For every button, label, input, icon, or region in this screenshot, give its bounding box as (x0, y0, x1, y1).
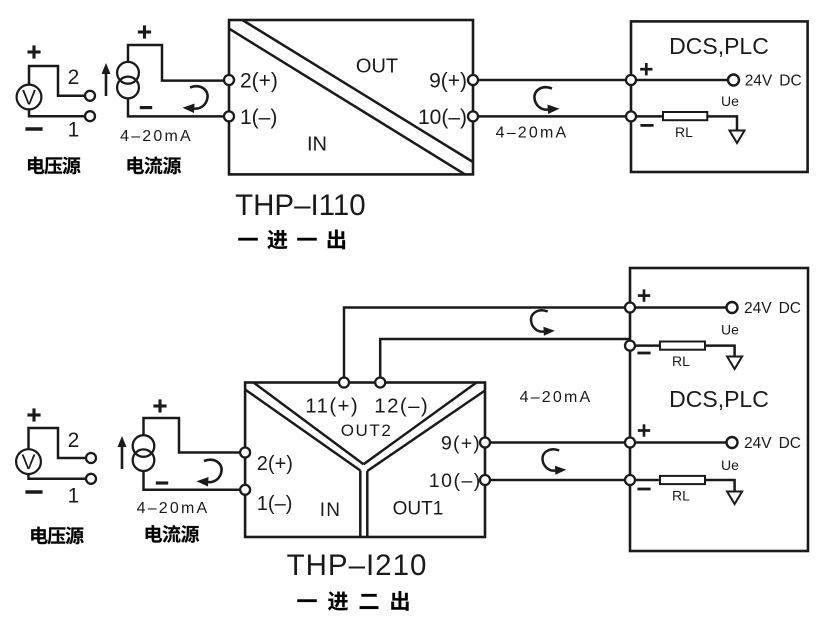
svg-text:Ue: Ue (721, 93, 739, 109)
node +a DCS2 (625, 303, 635, 313)
wire RL b to ground (705, 480, 735, 492)
node − DCS1 (626, 111, 636, 121)
terminal 24V DC (728, 75, 739, 86)
resistor RL load 1 (663, 112, 707, 120)
wire RL to ground 1 (707, 116, 737, 130)
label − DCS1 (640, 124, 653, 126)
isolator module U2 THP-I210 body (245, 383, 485, 538)
node −a DCS2 (625, 341, 635, 351)
svg-text:OUT2: OUT2 (341, 421, 393, 440)
svg-text:12(–): 12(–) (374, 395, 429, 418)
current loop arrow output 3 (542, 449, 566, 474)
svg-text:2(+): 2(+) (240, 70, 278, 93)
svg-text:IN: IN (320, 500, 342, 521)
wire V1 bottom to terminal 1 (29, 109, 85, 116)
resistor RL load b (660, 476, 705, 484)
voltage source V1 polarity − (25, 128, 42, 130)
wire 9(+) to DCS node + (478, 79, 626, 82)
wire V2 bottom to terminal 1 (29, 474, 87, 479)
svg-text:1(–): 1(–) (240, 106, 277, 129)
terminal 11(+) of U2 (339, 378, 349, 388)
terminal 1 of V1 (85, 111, 95, 121)
label 24V DC a (744, 300, 801, 317)
label 电流源 (current source) (128, 156, 182, 174)
svg-text:1: 1 (68, 119, 80, 142)
voltage source V2 (16, 449, 41, 474)
label 一进一出 (238, 230, 345, 250)
terminal 10(−) of U2 (480, 475, 490, 485)
svg-text:4–20mA: 4–20mA (496, 125, 569, 142)
wire 11(+) up and right to DCS2 node +a (344, 308, 626, 378)
voltage source V1 polarity + (27, 45, 40, 58)
terminal 24V DC b (727, 437, 738, 448)
svg-text:THP–I210: THP–I210 (287, 549, 428, 582)
svg-text:RL: RL (675, 124, 693, 140)
svg-text:24V: 24V (745, 73, 773, 90)
terminal 1(−) of U2 (240, 485, 250, 495)
svg-text:24V: 24V (744, 435, 772, 452)
terminal 24V DC a (727, 302, 738, 313)
svg-text:THP–I110: THP–I110 (235, 189, 366, 222)
voltage source V1 (17, 85, 42, 110)
wire RL a to ground (705, 346, 735, 357)
svg-text:DC: DC (779, 300, 801, 317)
isolation barrier Y left diagonal (245, 383, 363, 471)
isolation barrier diagonal (229, 20, 473, 174)
voltage source V2 polarity + (27, 408, 40, 421)
isolator module U1 THP-I110 body (229, 20, 473, 174)
svg-text:4–20mA: 4–20mA (120, 128, 193, 145)
node +b DCS2 (625, 438, 635, 448)
current loop arrow output 2 (531, 310, 555, 335)
wire 10(−) to DCS node − (478, 115, 626, 118)
svg-text:RL: RL (672, 488, 690, 504)
wire I2 bottom to module pin 1 (144, 471, 241, 490)
terminal 12(−) of U2 (375, 378, 385, 388)
terminal 2(+) of U2 (240, 448, 250, 458)
wire 9(+) to DCS2 node +b (490, 441, 626, 444)
terminal 2 of V2 (86, 453, 96, 463)
svg-text:9(+): 9(+) (441, 433, 481, 455)
label 电流源 circuit 2 (146, 525, 200, 543)
wire I2 top to module pin 2 (144, 418, 241, 453)
svg-text:OUT1: OUT1 (393, 499, 444, 520)
svg-text:IN: IN (307, 134, 327, 156)
label + b DCS2 (638, 424, 650, 436)
resistor RL load a (660, 342, 705, 350)
wire node + to 24V DC (631, 79, 728, 82)
label 电压源 (voltage source) (28, 157, 81, 175)
label 24V DC (745, 73, 802, 90)
voltage source V2 polarity − (25, 491, 42, 493)
wire 10(−) to DCS2 node −b (490, 479, 626, 482)
label − b DCS2 (637, 488, 650, 490)
svg-text:24V: 24V (744, 300, 772, 317)
current source I1 polarity + (138, 25, 151, 38)
label 电压源 circuit 2 (31, 527, 84, 545)
current loop arrow at I1 (183, 86, 208, 113)
svg-text:Ue: Ue (721, 457, 739, 473)
terminal 2(+) of U1 (224, 75, 234, 85)
terminal 9(+) of U1 (468, 75, 478, 85)
svg-text:11(+): 11(+) (305, 395, 359, 418)
svg-text:DC: DC (779, 435, 801, 452)
wire node +b to 24V DC b (630, 441, 726, 444)
current source I1 polarity − (140, 107, 152, 109)
node −b DCS2 (625, 475, 635, 485)
terminal 9(+) of U2 (480, 438, 490, 448)
wire 12(−) up and right to DCS2 node −a (380, 339, 629, 378)
svg-text:2: 2 (68, 66, 80, 89)
label + DCS1 (640, 63, 652, 75)
svg-text:DCS,PLC: DCS,PLC (669, 33, 769, 59)
svg-text:2(+): 2(+) (257, 453, 293, 475)
wire I1 bottom to module pin 1 (128, 98, 225, 116)
svg-text:V: V (22, 87, 36, 110)
wire node −a to RL a (630, 344, 660, 347)
svg-text:4–20mA: 4–20mA (520, 389, 593, 406)
current loop arrow output 1 (534, 87, 559, 114)
isolation barrier Y right diagonal (364, 383, 486, 472)
svg-text:DCS,PLC: DCS,PLC (669, 386, 769, 412)
svg-text:10(–): 10(–) (418, 106, 467, 129)
label − a DCS2 (637, 352, 650, 354)
current source I2 (133, 435, 155, 471)
svg-text:4–20mA: 4–20mA (137, 500, 210, 517)
current source I1 (117, 62, 139, 98)
DCS,PLC box 2 (630, 268, 808, 551)
current direction arrow I2 (118, 436, 127, 469)
DCS,PLC box 1 (631, 21, 808, 172)
wire V2 top to terminal 2 (29, 428, 87, 458)
node + DCS1 (626, 75, 636, 85)
svg-text:RL: RL (672, 353, 690, 369)
terminal 1(−) of U1 (224, 111, 234, 121)
label 24V DC b (744, 435, 801, 452)
ground 1 (730, 131, 745, 144)
current direction arrow I1 (102, 63, 111, 96)
terminal 2 of V1 (85, 91, 95, 101)
current loop arrow at I2 (197, 460, 222, 487)
ground a (727, 357, 742, 370)
svg-text:10(–): 10(–) (429, 470, 482, 492)
terminal 1 of V2 (86, 474, 96, 484)
label 一进二出 (297, 591, 408, 611)
current source I2 polarity − (156, 482, 168, 484)
current source I2 polarity + (153, 399, 166, 412)
svg-text:Ue: Ue (721, 322, 739, 338)
wire node −b to RL b (630, 479, 660, 482)
wire V1 top to terminal 2 (29, 66, 85, 96)
wire node +a to 24V DC a (630, 306, 726, 309)
svg-text:2: 2 (68, 429, 80, 452)
ground b (727, 492, 742, 505)
svg-text:V: V (21, 451, 35, 474)
isolation barrier Y vertical (360, 471, 367, 538)
label + a DCS2 (638, 289, 650, 301)
svg-text:DC: DC (779, 73, 801, 90)
terminal 10(−) of U1 (468, 111, 478, 121)
svg-text:1(–): 1(–) (257, 493, 293, 515)
svg-text:OUT: OUT (356, 55, 398, 77)
wire I1 top to module pin 2 (128, 45, 225, 81)
svg-text:1: 1 (68, 485, 80, 508)
svg-text:9(+): 9(+) (429, 70, 467, 93)
wire node − to RL (631, 115, 663, 118)
